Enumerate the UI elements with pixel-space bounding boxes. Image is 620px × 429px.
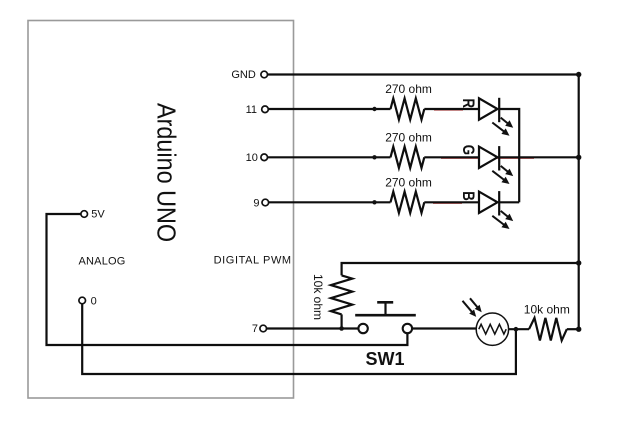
svg-text:ANALOG: ANALOG <box>79 255 126 267</box>
svg-text:9: 9 <box>253 198 259 210</box>
svg-text:R: R <box>459 99 478 109</box>
svg-text:10k ohm: 10k ohm <box>524 302 570 316</box>
svg-text:10k ohm: 10k ohm <box>311 274 325 320</box>
svg-text:SW1: SW1 <box>365 349 404 369</box>
svg-text:B: B <box>459 191 478 201</box>
svg-text:GND: GND <box>231 69 256 81</box>
svg-text:10: 10 <box>246 152 258 164</box>
svg-text:0: 0 <box>91 295 97 307</box>
svg-text:270 ohm: 270 ohm <box>385 131 432 145</box>
svg-text:Arduino UNO: Arduino UNO <box>151 103 179 242</box>
svg-text:DIGITAL PWM: DIGITAL PWM <box>214 255 292 267</box>
svg-text:5V: 5V <box>91 209 105 221</box>
svg-text:G: G <box>459 145 478 155</box>
svg-text:7: 7 <box>252 323 258 335</box>
svg-text:11: 11 <box>246 104 257 116</box>
svg-text:270 ohm: 270 ohm <box>385 176 432 190</box>
svg-text:270 ohm: 270 ohm <box>385 82 432 96</box>
